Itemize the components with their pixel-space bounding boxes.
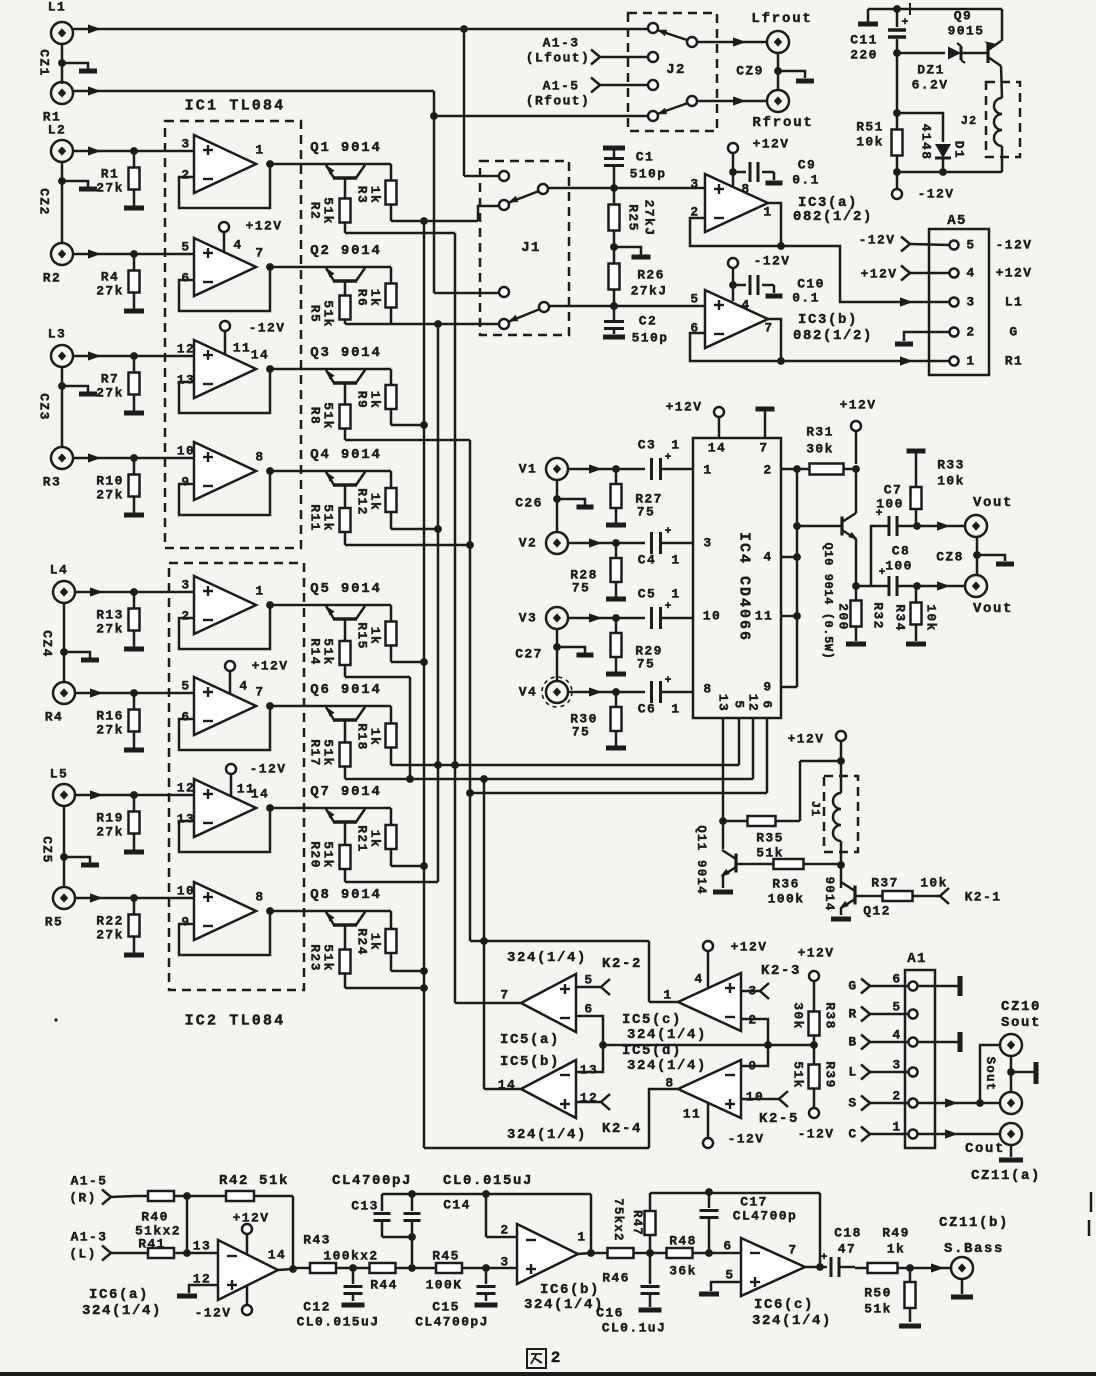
svg-text:(R): (R) xyxy=(69,1191,97,1206)
svg-text:C1: C1 xyxy=(636,150,654,165)
svg-text:13: 13 xyxy=(580,1063,598,1078)
feedback loop xyxy=(179,471,270,515)
wire L1 branch to J1 xyxy=(463,29,466,176)
svg-text:R3: R3 xyxy=(43,475,61,490)
op-amp Q7 stage triangle xyxy=(194,779,256,837)
svg-text:C8: C8 xyxy=(892,544,910,559)
resistor R37 10k xyxy=(855,895,883,898)
op-amp IC5(c) 324 xyxy=(678,973,741,1031)
wire R2 bottom xyxy=(345,232,455,235)
wire across transistor Q8 xyxy=(270,910,391,913)
wire to IC6b pin3 xyxy=(486,1267,517,1270)
wire L2 input xyxy=(73,150,194,153)
svg-text:C9: C9 xyxy=(798,158,816,173)
capacitor C5 1 xyxy=(650,607,653,629)
svg-text:C2: C2 xyxy=(639,314,657,329)
resistor R35 51k xyxy=(723,820,748,823)
svg-text:5: 5 xyxy=(732,700,747,709)
svg-text:R6: R6 xyxy=(355,289,370,307)
input jack V3 xyxy=(546,607,568,629)
svg-text:R3: R3 xyxy=(355,186,370,204)
svg-text:5: 5 xyxy=(966,238,975,253)
svg-text:+: + xyxy=(879,567,886,579)
svg-text:27k: 27k xyxy=(96,386,124,401)
svg-text:220: 220 xyxy=(850,48,878,63)
mid rail IC5 xyxy=(603,1044,814,1047)
relay coil J2 with dashed box xyxy=(986,82,1020,157)
svg-text:R19: R19 xyxy=(96,811,124,826)
wire to IC6c pin6 xyxy=(709,1252,741,1255)
svg-text:CZ3: CZ3 xyxy=(37,393,52,421)
svg-text:Q12: Q12 xyxy=(863,904,891,919)
op-amp Q1 stage triangle xyxy=(194,135,256,193)
wire across transistor Q2 xyxy=(270,266,391,269)
transistor Q1 9014 xyxy=(333,176,357,180)
svg-text:5: 5 xyxy=(181,240,190,255)
output jack Vout lower xyxy=(965,575,987,597)
op-amp Q8 stage triangle xyxy=(194,882,256,940)
resistor R39 51k xyxy=(813,1045,816,1065)
resistor R49 1k xyxy=(855,1267,868,1270)
svg-text:J1: J1 xyxy=(521,240,541,256)
svg-text:51k: 51k xyxy=(864,1302,892,1317)
svg-text:2: 2 xyxy=(763,463,772,478)
resistor R11 51k xyxy=(344,485,347,495)
resistor R27 75 xyxy=(615,469,618,484)
svg-text:100kx2: 100kx2 xyxy=(323,1249,378,1264)
svg-text:6: 6 xyxy=(181,710,190,725)
svg-text:6: 6 xyxy=(892,972,901,987)
wire IC4 pin4 xyxy=(781,556,797,559)
IC3b output and feedback xyxy=(768,319,781,361)
wire R15 bottom xyxy=(391,661,424,664)
resistor R28 75 xyxy=(615,543,618,558)
svg-text:-12V: -12V xyxy=(918,187,955,202)
svg-text:+12V: +12V xyxy=(996,266,1033,281)
svg-text:510p: 510p xyxy=(632,331,669,346)
ground below Cout xyxy=(1010,1145,1013,1157)
svg-text:324(1/4): 324(1/4) xyxy=(627,1027,707,1043)
svg-text:Q11 9014: Q11 9014 xyxy=(694,825,708,895)
svg-text:-12V: -12V xyxy=(249,321,286,336)
J2 contact 3 xyxy=(648,80,658,90)
J1 lever upper xyxy=(538,184,548,194)
svg-text:11: 11 xyxy=(683,1107,701,1122)
svg-text:10: 10 xyxy=(177,884,195,899)
fork K2-5 xyxy=(741,1098,779,1101)
svg-text:IC4 CD4066: IC4 CD4066 xyxy=(736,532,753,642)
svg-text:R2: R2 xyxy=(308,202,323,220)
wire R1 xyxy=(73,90,434,93)
wire R23 bottom xyxy=(345,987,424,990)
wire J1 to IC3b xyxy=(549,305,705,308)
svg-text:+12V: +12V xyxy=(666,400,703,415)
svg-text:L1: L1 xyxy=(1005,295,1023,310)
jack link and ground xyxy=(1010,1056,1013,1092)
svg-text:324(1/4): 324(1/4) xyxy=(507,950,587,966)
svg-text:IC1 TL084: IC1 TL084 xyxy=(185,98,286,115)
IC5b output wire xyxy=(484,1088,521,1091)
feedback loop xyxy=(179,267,270,311)
bottom border xyxy=(0,1372,1096,1376)
J2 contact 2 xyxy=(648,52,658,62)
svg-text:14: 14 xyxy=(268,1248,286,1263)
output jack Cout xyxy=(1000,1123,1022,1145)
svg-text:+12V: +12V xyxy=(840,398,877,413)
svg-text:9: 9 xyxy=(763,680,772,695)
svg-text:Q8 9014: Q8 9014 xyxy=(310,887,381,903)
svg-text:200: 200 xyxy=(836,603,851,631)
IC5c output wire xyxy=(649,1001,678,1004)
svg-text:R22: R22 xyxy=(96,914,124,929)
IC6a output node xyxy=(278,1269,293,1270)
wire A1-3 to J2 xyxy=(591,50,600,65)
wire J2 to Lfrout xyxy=(697,41,767,44)
svg-text:75: 75 xyxy=(572,725,590,740)
wire V2 xyxy=(568,542,645,545)
wire R11 bottom xyxy=(345,544,470,547)
svg-text:R5: R5 xyxy=(308,305,323,323)
capacitor CZ9 ground node xyxy=(777,53,780,90)
wire R9 bottom xyxy=(391,424,424,427)
J2 lever lower xyxy=(687,96,697,106)
svg-text:+12V: +12V xyxy=(246,219,283,234)
input jack L5 xyxy=(53,784,75,806)
svg-text:324(1/4): 324(1/4) xyxy=(627,1058,707,1074)
fork K2-1 xyxy=(940,888,949,904)
connector A5 pin 2 xyxy=(950,328,959,337)
resistor R2 51k xyxy=(344,178,347,188)
svg-text:C14: C14 xyxy=(443,1198,471,1213)
svg-text:R25: R25 xyxy=(626,204,641,232)
wire V3 xyxy=(568,617,645,620)
svg-text:R47: R47 xyxy=(630,1210,644,1236)
svg-text:4148: 4148 xyxy=(919,124,934,161)
transistor Q6 9014 xyxy=(333,718,357,722)
J1 lever lower xyxy=(539,302,549,312)
svg-text:R43: R43 xyxy=(303,1233,331,1248)
svg-text:7: 7 xyxy=(255,685,264,700)
svg-text:9: 9 xyxy=(181,915,190,930)
feedback tap to IC6b pin2 xyxy=(485,1194,488,1237)
resistor R21 1k xyxy=(390,808,393,825)
svg-text:0.1: 0.1 xyxy=(792,173,820,188)
svg-text:12: 12 xyxy=(177,342,195,357)
ground CZ8 between Vout jacks xyxy=(976,537,979,575)
input jack L3 xyxy=(51,345,73,367)
wire across transistor Q6 xyxy=(270,705,391,708)
resistor R17 51k xyxy=(344,720,347,730)
terminator at A1 pin4 xyxy=(918,1041,958,1044)
input jack R3 xyxy=(51,447,73,469)
svg-text:11: 11 xyxy=(755,609,773,624)
input jack V2 xyxy=(546,532,568,554)
jack V3-V4 link with ground CZ7 xyxy=(556,629,559,681)
transistor Q4 9014 xyxy=(333,483,357,487)
svg-text:L1: L1 xyxy=(48,0,66,15)
svg-text:Q4 9014: Q4 9014 xyxy=(310,447,381,463)
svg-text:4: 4 xyxy=(239,679,248,694)
ground IC4 pin7 xyxy=(756,407,775,412)
svg-text:27k: 27k xyxy=(96,825,124,840)
IC3a output and feedback xyxy=(768,203,781,246)
wire to IC6a pin13 xyxy=(187,1252,218,1255)
wire R21 bottom xyxy=(391,865,424,868)
svg-text:C12: C12 xyxy=(303,1300,331,1315)
wire R2 input xyxy=(73,253,194,256)
svg-text:+12V: +12V xyxy=(861,267,898,282)
ground below S.Bass jack xyxy=(961,1279,964,1294)
capacitor C13 xyxy=(381,1194,384,1211)
svg-text:B: B xyxy=(848,1035,857,1050)
wire across transistor Q1 xyxy=(270,163,391,166)
power -12V IC5d xyxy=(703,1138,713,1148)
wire L4 input xyxy=(75,591,194,594)
svg-text:C27: C27 xyxy=(515,647,543,662)
svg-text:-12V: -12V xyxy=(195,1306,232,1321)
svg-text:CZ10: CZ10 xyxy=(1001,999,1041,1015)
capacitor C10 0.1 xyxy=(733,284,746,287)
connector A1 pin 6 xyxy=(909,982,918,991)
J1 contact 4 xyxy=(499,319,509,329)
svg-text:2: 2 xyxy=(892,1089,901,1104)
op-amp IC3(b) 082 xyxy=(705,290,768,348)
svg-text:1: 1 xyxy=(671,438,680,453)
capacitor C16 CL0.1uJ xyxy=(649,1253,652,1284)
svg-text:1: 1 xyxy=(966,354,975,369)
op-amp IC6(b) 324 xyxy=(517,1224,578,1284)
ground tap between R25 R26 xyxy=(614,247,641,255)
connector A1 pin 5 xyxy=(909,1010,918,1019)
node Q11 collector xyxy=(719,817,727,825)
input jack V1 xyxy=(546,458,568,480)
resistor R3 1k xyxy=(390,164,393,181)
wire to Vout lower xyxy=(917,585,965,588)
wire across transistor Q4 xyxy=(270,470,391,473)
svg-text:R31: R31 xyxy=(806,425,834,440)
output node xyxy=(266,702,274,710)
svg-text:324(1/4): 324(1/4) xyxy=(507,1127,587,1143)
svg-text:G: G xyxy=(1009,325,1018,340)
svg-text:IC3(b): IC3(b) xyxy=(798,312,858,328)
wire R4 input xyxy=(75,692,194,695)
resistor R40 51kx2 xyxy=(111,1196,135,1197)
transistor Q9 9015 pnp xyxy=(986,44,989,63)
ground at IC6a pin12 xyxy=(189,1285,218,1293)
capacitor C4 1 xyxy=(650,532,653,554)
resistor R24 1k xyxy=(390,911,393,929)
connector A5 pin 3 xyxy=(950,298,959,307)
fork K2-3 xyxy=(741,990,760,993)
feedback loop xyxy=(179,164,270,208)
svg-text:0.1: 0.1 xyxy=(792,291,820,306)
svg-text:12: 12 xyxy=(746,694,761,712)
wire control line pin6 xyxy=(470,792,767,795)
resistor R9 1k xyxy=(390,369,393,385)
power -12V for IC1 xyxy=(220,321,230,331)
ground CZ2 xyxy=(61,162,64,243)
svg-text:13: 13 xyxy=(193,1239,211,1254)
svg-text:4: 4 xyxy=(694,972,703,987)
svg-text:+: + xyxy=(821,1252,828,1264)
svg-text:C10: C10 xyxy=(797,277,825,292)
wire R12 bottom xyxy=(391,528,438,531)
svg-text:R16: R16 xyxy=(96,709,124,724)
Q9 collector wire xyxy=(1001,66,1002,98)
svg-text:S: S xyxy=(848,1096,857,1111)
svg-text:-12V: -12V xyxy=(996,238,1033,253)
svg-text:7: 7 xyxy=(759,441,768,456)
wire R3 input xyxy=(73,457,194,460)
input jack R2 xyxy=(51,243,73,265)
svg-text:30k: 30k xyxy=(791,1002,806,1030)
ground CZ5 xyxy=(63,806,66,887)
svg-text:1k: 1k xyxy=(887,1242,905,1257)
svg-text:-12V: -12V xyxy=(859,233,896,248)
resistor R14 51k xyxy=(344,619,347,629)
wire A1 pin1 to Cout xyxy=(918,1133,1000,1136)
connector A5 pin 4 xyxy=(950,269,959,278)
transistor Q7 9014 xyxy=(333,820,357,824)
svg-text:9014: 9014 xyxy=(822,877,836,912)
svg-text:8: 8 xyxy=(255,450,264,465)
svg-text:9015: 9015 xyxy=(948,24,985,39)
power +12V IC6a xyxy=(242,1224,252,1234)
svg-text:V1: V1 xyxy=(519,462,537,477)
svg-text:IC2 TL084: IC2 TL084 xyxy=(185,1013,286,1030)
resistor R25 27kJ xyxy=(613,188,616,205)
svg-text:CL4700pJ: CL4700pJ xyxy=(332,1173,412,1189)
svg-text:10k: 10k xyxy=(856,135,884,150)
svg-text:Q7 9014: Q7 9014 xyxy=(310,784,381,800)
wires IC4 bottom control pins xyxy=(722,718,725,821)
capacitor C15 xyxy=(485,1268,488,1284)
svg-text:K2-2: K2-2 xyxy=(602,956,642,972)
wire L1 to J2 xyxy=(73,28,649,31)
resistor R23 51k xyxy=(344,925,347,935)
svg-text:R1: R1 xyxy=(1005,354,1023,369)
svg-text:Q1 9014: Q1 9014 xyxy=(310,140,381,156)
wire R24 bottom xyxy=(391,970,424,973)
svg-text:CL0.015uJ: CL0.015uJ xyxy=(297,1315,380,1330)
svg-text:R13: R13 xyxy=(96,608,124,623)
capacitor C7 100 xyxy=(871,526,889,586)
wire V1 xyxy=(568,468,645,471)
IC5a output wire xyxy=(455,1002,521,1005)
resistor R34 10k xyxy=(915,586,918,603)
svg-text:3: 3 xyxy=(500,1255,509,1270)
wire across transistor Q3 xyxy=(270,368,391,371)
svg-text:R33: R33 xyxy=(937,458,965,473)
power -12V IC3b xyxy=(728,258,738,268)
bottom rail PSU xyxy=(897,171,1002,174)
svg-text:CL4700pJ: CL4700pJ xyxy=(415,1315,489,1330)
feedback loop xyxy=(179,911,270,955)
connector A1 pin 3 xyxy=(909,1068,918,1077)
svg-text:R14: R14 xyxy=(308,638,323,666)
svg-text:4: 4 xyxy=(741,298,750,313)
svg-text:C3: C3 xyxy=(638,438,656,453)
output jack Sout xyxy=(1000,1092,1022,1114)
svg-text:10: 10 xyxy=(177,444,195,459)
svg-text:C6: C6 xyxy=(638,702,656,717)
svg-text:6.2V: 6.2V xyxy=(912,78,949,93)
relay coil J1 with dashed box xyxy=(824,776,858,852)
svg-text:7: 7 xyxy=(764,321,773,336)
svg-text:2: 2 xyxy=(181,168,190,183)
svg-text:C18: C18 xyxy=(834,1226,862,1241)
svg-text:R5: R5 xyxy=(45,915,63,930)
IC6c output node xyxy=(805,1266,820,1269)
bus IC4 right pins xyxy=(796,466,799,687)
svg-text:+12V: +12V xyxy=(731,940,768,955)
svg-text:IC5(c): IC5(c) xyxy=(622,1012,682,1028)
svg-text:K2-1: K2-1 xyxy=(965,890,1002,905)
svg-text:2: 2 xyxy=(181,609,190,624)
svg-text:R: R xyxy=(848,1007,857,1022)
svg-text:3: 3 xyxy=(892,1058,901,1073)
svg-text:+: + xyxy=(876,508,883,520)
svg-text:CZ5: CZ5 xyxy=(40,836,55,864)
capacitor C3 1 xyxy=(650,458,653,480)
power -12V below R39 xyxy=(809,1108,819,1118)
svg-text:10: 10 xyxy=(746,1090,764,1105)
svg-text:Q9: Q9 xyxy=(954,9,972,24)
J2 lever upper xyxy=(687,37,697,47)
svg-text:1: 1 xyxy=(892,1120,901,1135)
resistor R13 27k xyxy=(133,592,136,609)
svg-text:27k: 27k xyxy=(96,181,124,196)
svg-text:100K: 100K xyxy=(426,1278,463,1293)
svg-text:IC6(b): IC6(b) xyxy=(540,1282,600,1298)
svg-text:A1: A1 xyxy=(907,951,927,967)
svg-text:Q2 9014: Q2 9014 xyxy=(310,243,381,259)
svg-text:R49: R49 xyxy=(882,1226,910,1241)
capacitor C18 47 xyxy=(820,1266,827,1269)
feedback loop xyxy=(179,706,270,750)
transistor Q5 9014 xyxy=(333,617,357,621)
svg-text:12: 12 xyxy=(177,781,195,796)
svg-text:2: 2 xyxy=(551,1349,562,1367)
output node xyxy=(266,160,274,168)
svg-text:R12: R12 xyxy=(355,488,370,516)
input jack R4 xyxy=(53,682,75,704)
input jack L4 xyxy=(53,581,75,603)
power +12V for IC1 xyxy=(219,222,229,232)
svg-text:324(1/4): 324(1/4) xyxy=(524,1297,604,1313)
svg-text:51k: 51k xyxy=(791,1061,806,1089)
input jack R5 xyxy=(53,887,75,909)
capacitor C17 CL4700p xyxy=(708,1192,711,1208)
svg-text:CZ11(a): CZ11(a) xyxy=(971,1168,1041,1184)
wire R5 bottom xyxy=(345,323,391,326)
ground CZ4 xyxy=(63,603,66,683)
svg-text:R11: R11 xyxy=(308,504,323,532)
svg-text:10k: 10k xyxy=(924,604,939,632)
resistor R50 51k xyxy=(909,1268,912,1282)
svg-text:V3: V3 xyxy=(519,611,537,626)
connector A5 box xyxy=(929,229,989,375)
svg-text:+: + xyxy=(665,675,672,687)
resistor R48 36k xyxy=(650,1252,667,1255)
svg-text:(L): (L) xyxy=(69,1247,97,1262)
svg-text:4: 4 xyxy=(763,550,772,565)
power +12V for IC2 xyxy=(225,661,235,671)
input jack L1 xyxy=(51,22,73,44)
svg-text:R37: R37 xyxy=(871,876,899,891)
output jack CZ10 Sout xyxy=(1000,1034,1022,1056)
capacitor C2 510p xyxy=(613,306,616,320)
